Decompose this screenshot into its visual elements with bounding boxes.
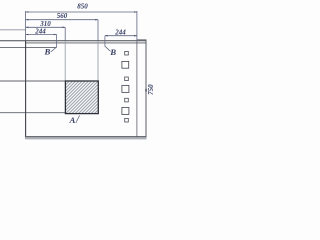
svg-text:750: 750 [147,84,155,95]
extension line x=65.2 (310) [64,27,66,41]
fastener square l1 [122,61,129,68]
fastener square s2 [125,77,129,81]
leader B right [105,46,111,51]
wire: left horizontal rail y=81 [0,80,65,82]
fastener square s1 [125,51,129,55]
leader A [76,115,80,123]
dimension 310 line [26,26,66,28]
panel left edge [25,40,27,138]
svg-text:560: 560 [57,12,68,20]
dimension 244 left line [26,34,57,36]
extension line x=98 (560) [97,20,99,42]
panel outer right edge [145,40,147,139]
wire: left horizontal rail y=47.7 [0,46,56,48]
svg-text:244: 244 [34,28,46,36]
hatched opening A [65,81,98,114]
tick on right edge near 750 [145,89,147,92]
section line B right [104,36,106,47]
panel top edge outer line [0,40,146,42]
svg-text:850: 850 [77,3,88,11]
far-left faint line [0,29,26,31]
fastener square l2 [122,85,129,92]
bottom band [25,137,146,139]
fastener square s3 [125,98,129,102]
dimension 244 right line [105,35,137,37]
wire: left horizontal rail y=112.7 [0,112,65,114]
svg-text:B: B [109,47,116,57]
fastener square s4 [125,118,129,122]
extension line x=136.9 (850 right) [136,11,138,41]
panel inner right edge [136,41,138,137]
dimension 850 line [26,11,137,13]
svg-text:244: 244 [114,29,126,37]
top-right step line [137,39,147,41]
panel top edge inner line [26,42,147,44]
leader B left [51,47,57,52]
bottom band top line [25,136,146,138]
feature line x=98 inside panel [97,41,99,81]
section line B left [56,35,58,48]
svg-text:B: B [43,47,50,57]
svg-text:A: A [68,115,75,125]
extension line left x=25.6 above panel [25,11,27,41]
feature line x=65 inside panel [64,41,66,81]
fastener square l3 [122,107,129,114]
dimension 560 line [26,19,98,21]
